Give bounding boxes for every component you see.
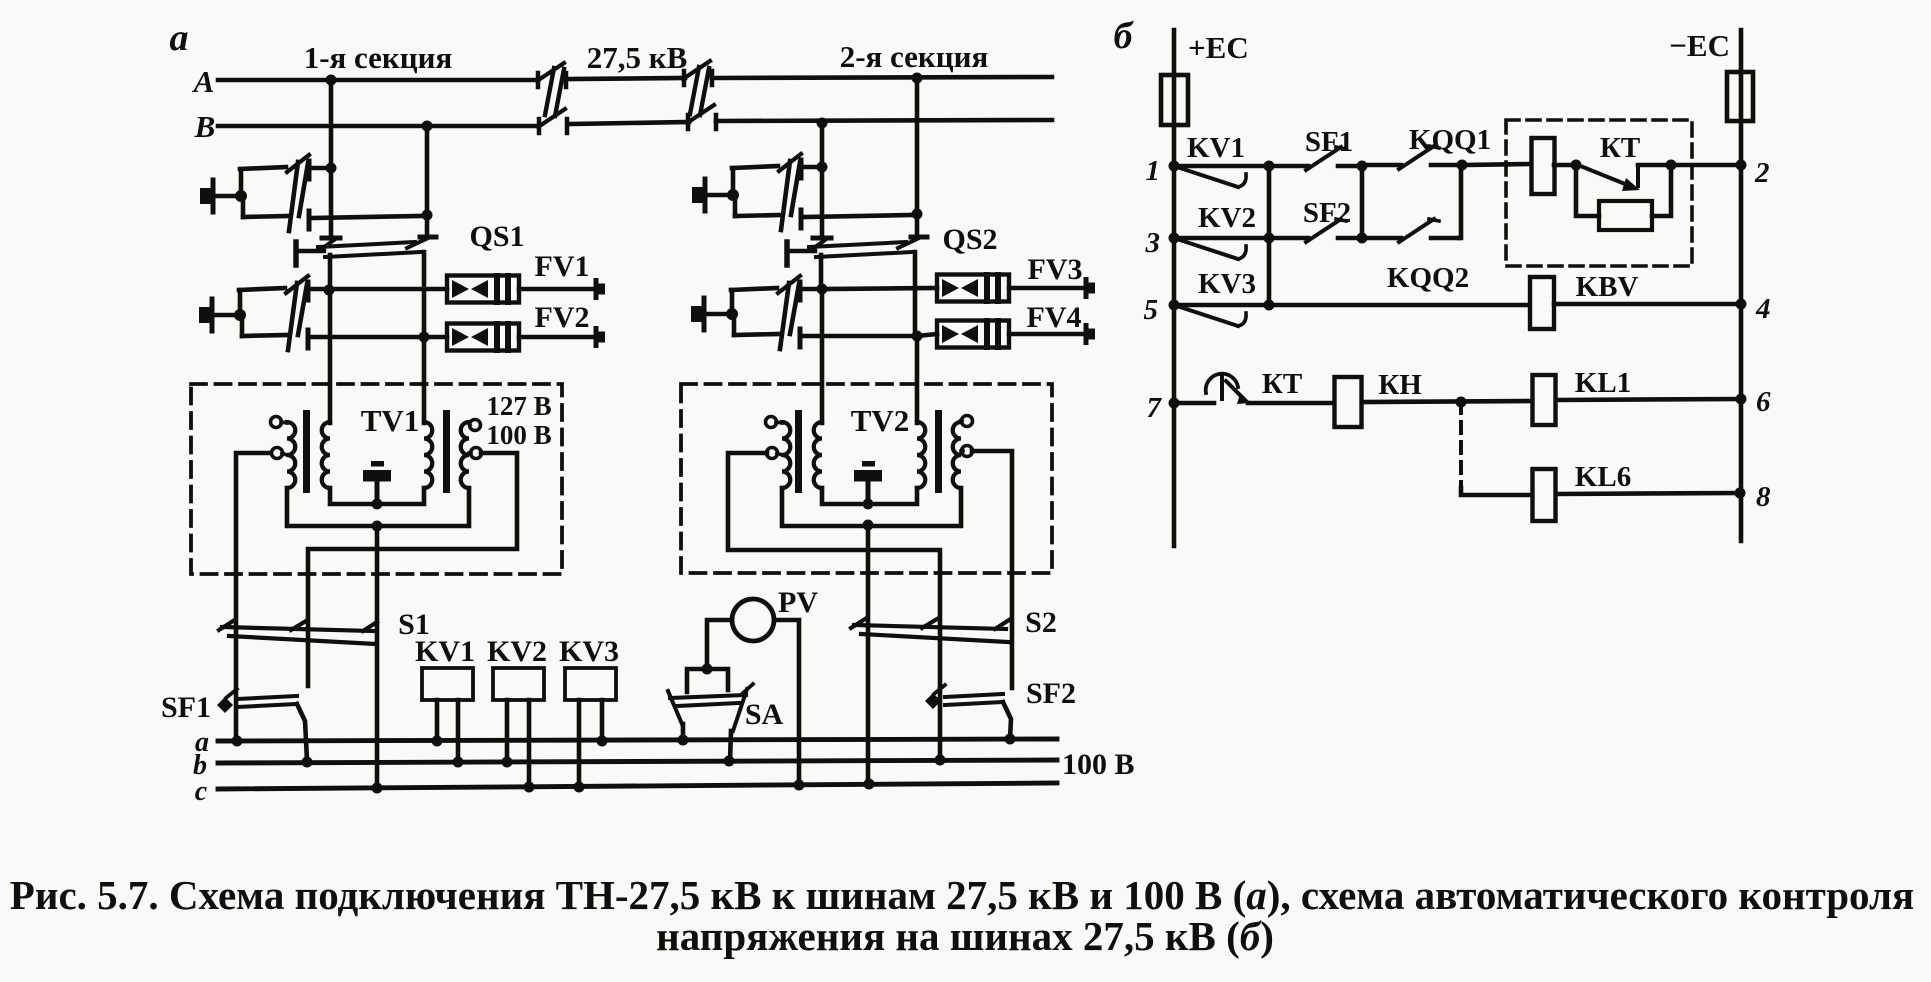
voltmeter PV bbox=[732, 599, 774, 641]
node FV1 tap bbox=[324, 285, 335, 296]
node TV1 secondary star bbox=[372, 521, 383, 532]
node TV2 secondary star bbox=[863, 520, 874, 531]
label SA bbox=[745, 698, 784, 731]
contact KQQ1 bbox=[1362, 146, 1462, 169]
node b-KV2 bbox=[502, 757, 513, 768]
wire col1 bbox=[1267, 166, 1272, 305]
label -EC bbox=[1669, 28, 1730, 63]
svg-text:+ЕС: +ЕС bbox=[1188, 30, 1249, 65]
relay KBV coil bbox=[1530, 277, 1554, 329]
label node 8 bbox=[1756, 481, 1771, 513]
wire row5 right bbox=[1554, 302, 1741, 307]
label contact SF2 bbox=[1303, 197, 1351, 229]
svg-text:TV1: TV1 bbox=[361, 403, 420, 438]
TV1 tap terminal 127V left bbox=[271, 417, 288, 428]
TV1 tap terminal 100V left bbox=[272, 448, 288, 459]
svg-text:SA: SA bbox=[745, 698, 784, 731]
node FV3 tap bbox=[817, 284, 828, 295]
relay KL6 coil bbox=[1533, 469, 1556, 521]
fuse FU+ bbox=[1161, 75, 1188, 125]
node 7 bbox=[1169, 398, 1180, 409]
svg-text:б: б bbox=[1114, 15, 1135, 57]
svg-text:напряжения на шинах 27,5 кВ (б: напряжения на шинах 27,5 кВ (б) bbox=[656, 913, 1274, 959]
TV2 left core bbox=[795, 410, 802, 493]
bus b wire bbox=[218, 760, 1057, 763]
breaker SF2 outlet bend bbox=[1003, 702, 1011, 739]
bus c wire bbox=[218, 783, 1057, 789]
wire TV2 primary left lead bbox=[820, 289, 825, 423]
wire FV3 row bbox=[822, 288, 937, 289]
wire row7 lead bbox=[1174, 401, 1214, 406]
wire FV4 row bbox=[917, 334, 937, 336]
wire KV1 leads bbox=[437, 700, 458, 762]
node joint fuse3 upper bbox=[817, 162, 828, 173]
node KT-right bbox=[1666, 160, 1677, 171]
svg-text:SF2: SF2 bbox=[1303, 197, 1351, 229]
label node 5 bbox=[1144, 294, 1159, 326]
disconnector QS2 bbox=[787, 237, 927, 336]
breaker SF1 pivot bbox=[217, 689, 237, 713]
switch S2 blade 1 bbox=[851, 619, 865, 628]
node b-KV1 bbox=[453, 757, 464, 768]
TV2 tap terminal 100V left bbox=[767, 448, 783, 459]
svg-text:27,5 кВ: 27,5 кВ bbox=[587, 40, 688, 75]
svg-text:КН: КН bbox=[1378, 369, 1422, 401]
svg-text:А: А bbox=[192, 64, 215, 99]
label FV4 bbox=[1027, 301, 1082, 334]
wire resistor right bbox=[1652, 165, 1671, 216]
svg-text:KL1: KL1 bbox=[1575, 367, 1631, 399]
label node 6 bbox=[1756, 386, 1771, 418]
label QS2 bbox=[942, 223, 997, 256]
TV2 dashed box bbox=[681, 384, 1052, 573]
node TV1 primary star bbox=[372, 499, 383, 510]
breaker SF1 outlet bend bbox=[297, 704, 307, 761]
label contact KQQ1 bbox=[1409, 124, 1491, 156]
wire TV1 100V left tap to S1 bbox=[236, 453, 271, 741]
node bus A sec.2 bbox=[912, 73, 923, 84]
contact KV2 bbox=[1174, 238, 1269, 259]
selector SA right side bbox=[733, 689, 747, 731]
wire FV2 row bbox=[424, 335, 447, 340]
contact SF2 bbox=[1269, 219, 1362, 242]
relay KL1 coil bbox=[1533, 375, 1556, 425]
svg-text:c: c bbox=[195, 776, 208, 807]
svg-text:QS2: QS2 bbox=[942, 223, 997, 256]
fuse-switch F1 (sec.1 upper) bbox=[200, 155, 421, 231]
relay KV1 coil bbox=[422, 668, 473, 700]
TV1 tap terminal 127V right bbox=[469, 420, 481, 431]
node c-TV1 bbox=[372, 783, 383, 794]
label 2-я секция bbox=[840, 39, 989, 74]
TV2 right primary winding bbox=[917, 422, 925, 488]
bus tie disconnector bars left bbox=[545, 68, 564, 116]
node col1-row5 bbox=[1264, 300, 1275, 311]
wire TV2 neutral down to bus c bbox=[866, 525, 871, 784]
node 8 bbox=[1735, 488, 1746, 499]
node col2-row3 bbox=[1357, 233, 1368, 244]
node col3-row1 bbox=[1457, 160, 1468, 171]
relay KT coil bbox=[1532, 138, 1555, 194]
wire TV1 100V right tap crossover bbox=[308, 453, 517, 686]
label 100 В bbox=[486, 420, 551, 450]
node col1-row1 bbox=[1264, 161, 1275, 172]
TV2 tap terminal 127V left bbox=[766, 417, 783, 428]
relay KV3 coil bbox=[565, 668, 616, 700]
label QS1 bbox=[469, 220, 524, 253]
wire TV2 primary right lead bbox=[915, 336, 920, 423]
label node 7 bbox=[1147, 392, 1163, 424]
svg-text:SF1: SF1 bbox=[161, 691, 211, 724]
bus tie disconnector left on bus A bbox=[537, 63, 566, 87]
bus tie disconnector bars right bbox=[690, 67, 709, 115]
TV1 dashed box bbox=[191, 384, 562, 574]
wire TV1 primary left lead bbox=[328, 290, 333, 423]
label FV1 bbox=[535, 250, 590, 283]
arrester FV1 bbox=[447, 276, 605, 303]
wire KT coil out bbox=[1554, 163, 1576, 168]
wire resistor left bbox=[1576, 165, 1599, 216]
node 5 bbox=[1169, 300, 1180, 311]
node c-TV2 bbox=[864, 779, 875, 790]
wire TV1 neutral down to bus c bbox=[375, 526, 380, 788]
label KBV bbox=[1576, 271, 1639, 303]
caption line 1 bbox=[10, 872, 1914, 918]
wire col2 bbox=[1360, 166, 1365, 238]
svg-text:KV3: KV3 bbox=[1198, 268, 1256, 300]
svg-text:FV4: FV4 bbox=[1027, 301, 1082, 334]
label KL1 bbox=[1575, 367, 1631, 399]
svg-text:KV1: KV1 bbox=[415, 635, 475, 668]
node c-KV2 bbox=[524, 782, 535, 793]
fuse-switch F3 (sec.2 upper) bbox=[692, 154, 911, 230]
wire KQQ2 up to row1 bbox=[1459, 165, 1461, 238]
wire TV2 primary common bbox=[822, 488, 917, 504]
svg-text:KL6: KL6 bbox=[1575, 461, 1631, 493]
bus a wire bbox=[218, 739, 1057, 741]
node FV2 tap bbox=[419, 332, 430, 343]
node a-KV3 bbox=[597, 736, 608, 747]
svg-text:КТ: КТ bbox=[1600, 132, 1640, 164]
phase label B bbox=[194, 109, 216, 144]
TV1 tap terminal 100V right bbox=[469, 448, 482, 459]
wire PV left lead bbox=[707, 620, 732, 669]
selector SA handle tick bbox=[743, 684, 753, 693]
label contact KV1 bbox=[1187, 132, 1245, 164]
breaker SF2 pivot bbox=[925, 685, 945, 709]
svg-text:FV3: FV3 bbox=[1028, 253, 1083, 286]
svg-text:4: 4 bbox=[1755, 293, 1771, 325]
TV2 tap terminal 127V right bbox=[961, 416, 973, 427]
wire KL6 to node 8 bbox=[1556, 493, 1740, 494]
bus +EC wire bbox=[1172, 30, 1177, 546]
svg-text:S2: S2 bbox=[1025, 606, 1057, 639]
switch S2 rod bbox=[854, 625, 1008, 642]
svg-text:QS1: QS1 bbox=[469, 220, 524, 253]
wire KH to KL1 bbox=[1362, 401, 1533, 402]
TV2 right core bbox=[935, 410, 942, 493]
label +EC bbox=[1188, 30, 1249, 65]
breaker SF2 rod bbox=[945, 694, 1003, 705]
node b-S2 bbox=[935, 755, 946, 766]
resistor R (KT) bbox=[1599, 201, 1652, 230]
node bus B sec.1 bbox=[422, 121, 433, 132]
svg-text:FV2: FV2 bbox=[535, 301, 590, 334]
wire KT box to node 2 bbox=[1671, 163, 1741, 168]
wire TV1 primary common bbox=[330, 488, 424, 504]
wire FV1 row bbox=[329, 287, 447, 292]
svg-text:1-я секция: 1-я секция bbox=[304, 40, 453, 75]
svg-text:100 В: 100 В bbox=[1062, 748, 1135, 781]
label KV2 bbox=[487, 635, 547, 668]
svg-text:KBV: KBV bbox=[1576, 271, 1639, 303]
bus -EC wire bbox=[1739, 30, 1744, 541]
contact SF1 bbox=[1269, 147, 1362, 170]
label TV2 bbox=[851, 403, 910, 438]
svg-text:3: 3 bbox=[1145, 227, 1161, 259]
label contact KT bbox=[1262, 368, 1302, 400]
label S2 bbox=[1025, 606, 1057, 639]
relay KH coil bbox=[1335, 377, 1362, 427]
label bus c bbox=[195, 776, 208, 807]
wire TV2 100V right tap to S2 bbox=[972, 451, 1012, 688]
svg-text:8: 8 bbox=[1756, 481, 1771, 513]
label 127 В bbox=[486, 391, 551, 421]
node bus B sec.2 bbox=[817, 118, 828, 129]
label KV3 bbox=[559, 635, 619, 668]
node row7 branch bbox=[1456, 397, 1467, 408]
wire KT to KH bbox=[1248, 401, 1335, 406]
label KH bbox=[1378, 369, 1422, 401]
wire TV2 100V left tap crossover bbox=[728, 453, 940, 760]
arrester FV2 bbox=[447, 324, 605, 351]
node col2-row1 bbox=[1357, 161, 1368, 172]
TV1 ground symbol bbox=[363, 461, 391, 504]
switch S1 blade 2 bbox=[291, 621, 306, 630]
label bus b bbox=[193, 750, 207, 781]
wire TV1 primary right lead bbox=[422, 337, 427, 423]
TV1 left core bbox=[303, 410, 310, 493]
switch S2 blade 3 bbox=[995, 620, 1009, 629]
wire TV2 secondary common bbox=[782, 488, 961, 526]
label FV2 bbox=[535, 301, 590, 334]
breaker SF1 rod bbox=[237, 696, 297, 707]
TV2 right secondary winding bbox=[953, 422, 961, 488]
TV2 tap terminal 100V right bbox=[961, 446, 973, 457]
node c-KV3 bbox=[574, 782, 585, 793]
wire row5 bbox=[1269, 303, 1530, 308]
label 1-я секция bbox=[304, 40, 453, 75]
bus tie disconnector right on bus A bbox=[683, 61, 712, 85]
contact KV3 bbox=[1174, 305, 1269, 326]
selector SA left side bbox=[668, 691, 682, 724]
svg-text:TV2: TV2 bbox=[851, 403, 910, 438]
selector SA bracket bbox=[687, 669, 728, 692]
node joint fuse1 lower bbox=[422, 210, 433, 221]
svg-text:В: В bbox=[194, 109, 216, 144]
svg-text:KV3: KV3 bbox=[559, 635, 619, 668]
fuse FU- bbox=[1727, 72, 1753, 121]
arrester FV3 bbox=[937, 275, 1095, 302]
bus tie disconnector right on bus B bbox=[687, 105, 716, 129]
node joint fuse3 lower bbox=[912, 209, 923, 220]
label contact KQQ2 bbox=[1387, 262, 1469, 294]
label S1 bbox=[398, 608, 430, 641]
TV2 left secondary winding bbox=[782, 422, 790, 488]
contact KV1 bbox=[1174, 166, 1269, 187]
label node 2 bbox=[1754, 157, 1770, 189]
wire bus B down sec.2 bbox=[820, 123, 825, 238]
label node 4 bbox=[1755, 293, 1771, 325]
node 1 bbox=[1169, 161, 1180, 172]
label FV3 bbox=[1028, 253, 1083, 286]
wire KL6 row bbox=[1461, 488, 1533, 495]
TV1 left primary winding bbox=[322, 422, 330, 488]
contact KT with delay bbox=[1583, 165, 1640, 191]
section label а bbox=[170, 17, 189, 59]
label SF1 bbox=[161, 691, 211, 724]
node a-SA bbox=[678, 735, 689, 746]
label 27,5 кВ bbox=[587, 40, 688, 75]
label PV bbox=[778, 586, 818, 619]
label contact KV3 bbox=[1198, 268, 1256, 300]
node c-PV bbox=[794, 780, 805, 791]
svg-text:KV2: KV2 bbox=[1198, 202, 1256, 234]
label SF2 bbox=[1026, 677, 1076, 710]
wire KV2 leads bbox=[507, 700, 529, 787]
svg-text:127 В: 127 В bbox=[486, 391, 551, 421]
svg-text:2-я секция: 2-я секция bbox=[840, 39, 989, 74]
label KV1 bbox=[415, 635, 475, 668]
svg-text:6: 6 bbox=[1756, 386, 1771, 418]
node col1-row3 bbox=[1264, 233, 1275, 244]
node 3 bbox=[1169, 233, 1180, 244]
node a-SF1 bbox=[232, 736, 243, 747]
label 100 В bbox=[1062, 748, 1135, 781]
wire KT contact out bbox=[1638, 163, 1671, 168]
svg-text:FV1: FV1 bbox=[535, 250, 590, 283]
wire KL1 to node 6 bbox=[1556, 399, 1741, 400]
dashed branch wire bbox=[1459, 402, 1463, 488]
label node 1 bbox=[1146, 155, 1161, 187]
selector SA decks bbox=[670, 695, 746, 706]
disconnector QS1 bbox=[296, 237, 436, 337]
node 6 bbox=[1736, 394, 1747, 405]
wire bus A down sec.2 bbox=[915, 78, 920, 237]
svg-text:PV: PV bbox=[778, 586, 818, 619]
svg-text:КТ: КТ bbox=[1262, 368, 1302, 400]
bus tie disconnector left on bus B bbox=[538, 109, 567, 133]
wire PV right lead bbox=[774, 620, 799, 785]
svg-text:KQQ1: KQQ1 bbox=[1409, 124, 1491, 156]
fuse-switch F4 (sec.2 lower) bbox=[691, 276, 911, 349]
node bus A sec.1 bbox=[326, 75, 337, 86]
bus B wire bbox=[218, 120, 1052, 126]
switch S2 blade 2 bbox=[922, 619, 937, 628]
node 2 bbox=[1736, 160, 1747, 171]
fuse-switch F2 (sec.1 lower) bbox=[199, 276, 420, 350]
caption line 2 bbox=[656, 913, 1274, 959]
label TV1 bbox=[361, 403, 420, 438]
svg-text:KV2: KV2 bbox=[487, 635, 547, 668]
contact KQQ2 bbox=[1362, 219, 1459, 242]
wire row1 to KT box bbox=[1462, 164, 1532, 165]
node a-KV1 bbox=[432, 736, 443, 747]
svg-text:KQQ2: KQQ2 bbox=[1387, 262, 1469, 294]
switch S1 rod bbox=[222, 627, 376, 644]
section label б bbox=[1114, 15, 1135, 57]
node b-SA bbox=[724, 756, 735, 767]
wire bus A down sec.1 bbox=[329, 80, 334, 238]
TV1 right secondary winding bbox=[461, 422, 469, 488]
svg-text:2: 2 bbox=[1754, 157, 1770, 189]
svg-text:а: а bbox=[170, 17, 189, 59]
svg-text:SF2: SF2 bbox=[1026, 677, 1076, 710]
svg-text:1: 1 bbox=[1146, 155, 1161, 187]
node FV4 tap bbox=[912, 331, 923, 342]
label contact SF1 bbox=[1305, 126, 1353, 158]
phase label A bbox=[192, 64, 215, 99]
label contact KV2 bbox=[1198, 202, 1256, 234]
node PV-SA joint bbox=[702, 664, 713, 675]
node b-S1 bbox=[302, 757, 313, 768]
label bus a bbox=[195, 727, 209, 758]
svg-text:SF1: SF1 bbox=[1305, 126, 1353, 158]
label KT bbox=[1600, 132, 1640, 164]
bus A wire bbox=[218, 77, 1052, 80]
svg-text:KV1: KV1 bbox=[1187, 132, 1245, 164]
node a-SF2 bbox=[1005, 734, 1016, 745]
wire TV1 secondary common bbox=[287, 488, 469, 526]
label KL6 bbox=[1575, 461, 1631, 493]
svg-text:100 В: 100 В bbox=[486, 420, 551, 450]
node TV2 primary star bbox=[863, 499, 874, 510]
TV1 right primary winding bbox=[424, 422, 432, 488]
TV1 left secondary winding bbox=[287, 422, 295, 488]
relay KV2 coil bbox=[493, 668, 544, 700]
svg-text:−ЕС: −ЕС bbox=[1669, 28, 1730, 63]
node KT-left bbox=[1571, 160, 1582, 171]
TV2 ground symbol bbox=[854, 461, 882, 504]
TV1 right core bbox=[443, 410, 450, 493]
wire bus B down sec.1 bbox=[425, 126, 430, 237]
node 4 bbox=[1736, 299, 1747, 310]
svg-text:5: 5 bbox=[1144, 294, 1159, 326]
wire KV3 leads bbox=[579, 700, 602, 787]
label node 3 bbox=[1145, 227, 1161, 259]
switch S1 blade 3 bbox=[363, 622, 377, 631]
wire SA right lead bbox=[730, 731, 731, 761]
node joint fuse1 upper bbox=[326, 163, 337, 174]
contact KT time-delay bbox=[1206, 374, 1250, 404]
wire SA left lead bbox=[681, 724, 686, 741]
TV2 left primary winding bbox=[814, 422, 822, 488]
switch S1 blade 1 bbox=[219, 621, 233, 630]
arrester FV4 bbox=[937, 321, 1095, 348]
svg-text:7: 7 bbox=[1147, 392, 1163, 424]
svg-text:Рис. 5.7. Схема подключения ТН: Рис. 5.7. Схема подключения ТН-27,5 кВ к… bbox=[10, 872, 1914, 918]
KT dashed box bbox=[1506, 120, 1692, 266]
